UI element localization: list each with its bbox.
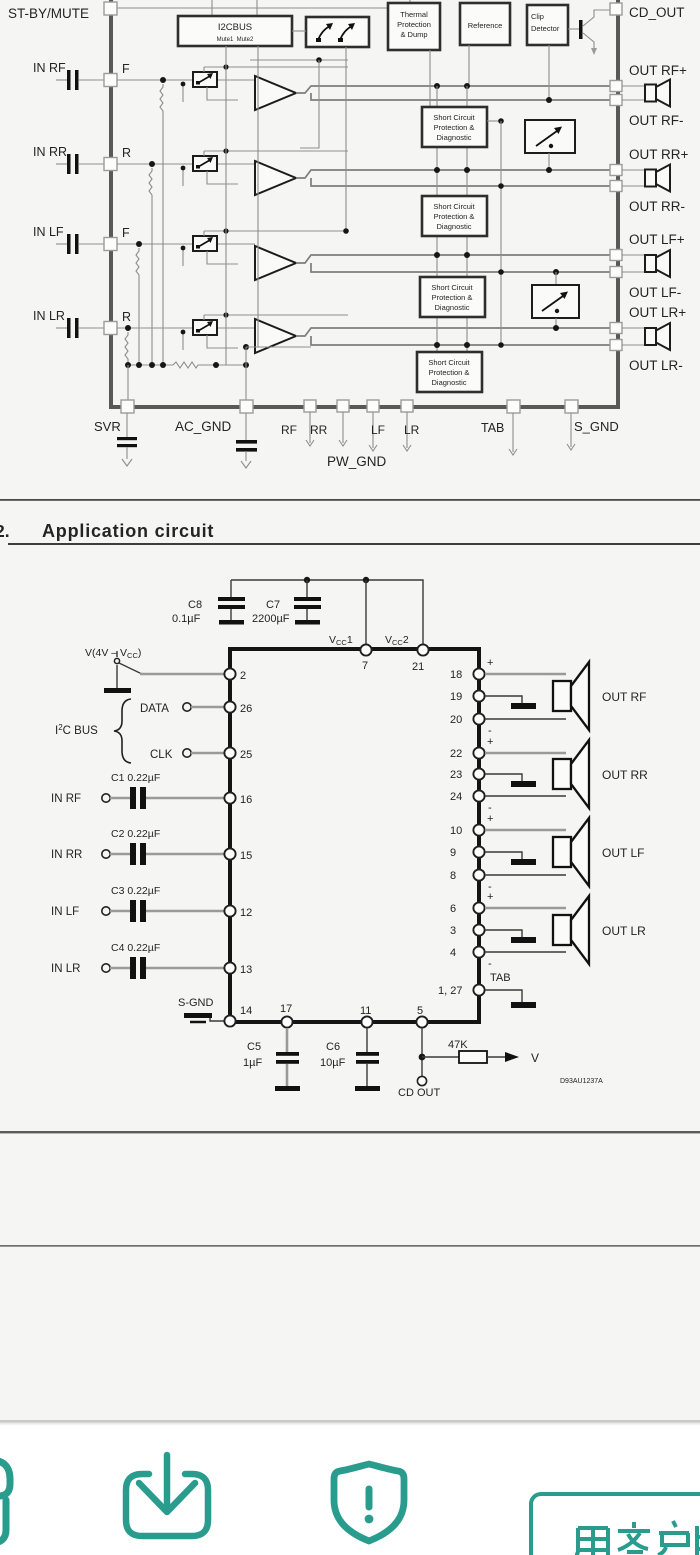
heading Application circuit [42, 521, 214, 541]
label PW_GND [327, 454, 387, 469]
wire DATA [191, 706, 224, 709]
pin 24 OUT RR- [450, 790, 485, 803]
label pin letter R [122, 146, 131, 160]
label minus OUT LF [488, 881, 492, 893]
wire AC ground bus [125, 362, 170, 368]
wire clip A to RR [546, 153, 552, 173]
svg-text:Short Circuit: Short Circuit [433, 113, 475, 122]
capacitor C1 [110, 787, 224, 809]
svg-text:IN LR: IN LR [51, 963, 80, 975]
terminal CD OUT [398, 1076, 440, 1099]
label minus OUT LR [488, 958, 492, 970]
label RF [281, 423, 297, 437]
label OUT RF+ [629, 63, 687, 78]
block clip comparator A [525, 120, 575, 153]
pin 3 pgnd [450, 924, 485, 937]
svg-text:C7: C7 [266, 599, 280, 611]
svg-text:RR: RR [310, 423, 328, 437]
wire mute bus drop LF [204, 228, 348, 236]
svg-text:DATA: DATA [140, 703, 169, 715]
label OUT RR [602, 768, 648, 782]
speaker LR [645, 323, 670, 350]
icon download [126, 1455, 208, 1536]
svg-text:Short Circuit: Short Circuit [433, 202, 475, 211]
svg-text:AC_GND: AC_GND [175, 419, 232, 434]
ground pgnd OUT RF [485, 696, 536, 709]
terminal DATA [140, 703, 191, 715]
wire OUT LR- [485, 951, 566, 953]
svg-text:24: 24 [450, 791, 462, 803]
wire input row LR [117, 327, 255, 329]
capacitor C4 [110, 957, 224, 979]
capacitor C5 [275, 1028, 300, 1091]
wire OUT RF- [485, 718, 566, 720]
block input mute switch LR [193, 320, 217, 335]
pin IN LF [104, 238, 117, 251]
pin AC_GND [240, 400, 253, 413]
svg-text:D93AU1237A: D93AU1237A [560, 1078, 603, 1085]
wire OUT LR- line [311, 336, 610, 345]
toolbar background [0, 1421, 700, 1555]
node LR taps [434, 342, 470, 348]
wire mute box feedback RR [181, 166, 238, 186]
pin 7 Vcc1 [360, 644, 371, 672]
svg-text:RF: RF [281, 423, 297, 437]
pin OUT LF+ [610, 250, 622, 261]
label C4 value [111, 942, 160, 954]
block Clip Detector [527, 5, 568, 45]
capacitor AC_GND external [236, 413, 257, 468]
svg-text:16: 16 [240, 794, 252, 806]
svg-text:C6: C6 [326, 1041, 340, 1053]
label C5 value [243, 1041, 262, 1069]
svg-text:IN RF: IN RF [51, 793, 81, 805]
label OUT RR- [629, 199, 685, 214]
label minus OUT RR [488, 802, 492, 814]
svg-text:+: + [487, 657, 493, 669]
svg-text:Protection &: Protection & [432, 293, 473, 302]
wire input row RF [117, 79, 255, 81]
pin IN LR [104, 322, 117, 335]
block short circuit protection 4 [417, 352, 482, 392]
svg-text:OUT RF-: OUT RF- [629, 113, 684, 128]
speaker LF [645, 250, 670, 277]
svg-text:Protection: Protection [397, 20, 431, 29]
IC outline U1 (block diagram) [111, 0, 618, 407]
resistor 47K [448, 1039, 487, 1063]
svg-text:7: 7 [362, 660, 368, 672]
pin 8 OUT LF- [450, 869, 485, 882]
button open in client [531, 1494, 700, 1555]
label OUT LR+ [629, 305, 686, 320]
node resistor tap RF [160, 77, 166, 83]
glyph duan partial [697, 1526, 700, 1555]
capacitor SVR external [117, 413, 137, 466]
label C2 value [111, 828, 160, 840]
svg-text:SVR: SVR [94, 419, 121, 434]
svg-text:Diagnostic: Diagnostic [431, 378, 466, 387]
block I2CBUS U2 [178, 16, 292, 46]
svg-text:R: R [122, 146, 131, 160]
brace I2C BUS [114, 699, 131, 763]
wire OUT LF- line [311, 263, 610, 272]
block short circuit protection 1 [422, 107, 487, 147]
node clip tap A [546, 97, 552, 103]
pin IN RR [104, 158, 117, 171]
svg-text:C5: C5 [247, 1041, 261, 1053]
svg-text:1, 27: 1, 27 [438, 985, 462, 997]
icon share partial left [0, 1460, 10, 1543]
label C1 value [111, 772, 160, 784]
svg-text:OUT LF: OUT LF [602, 846, 644, 860]
speaker OUT LR [553, 896, 589, 964]
capacitor C6 [355, 1028, 380, 1091]
label SVR [94, 419, 121, 434]
svg-text:OUT LF-: OUT LF- [629, 285, 681, 300]
svg-text:10: 10 [450, 825, 462, 837]
wire clip B to LR [553, 318, 559, 331]
capacitor input C-LF [56, 234, 104, 254]
node clip tap B [553, 269, 559, 285]
wire OUT LF+ [485, 829, 566, 832]
resistor shunt RF [160, 84, 163, 365]
svg-text:OUT RF: OUT RF [602, 690, 646, 704]
svg-text:Diagnostic: Diagnostic [434, 303, 469, 312]
svg-text:11: 11 [360, 1005, 371, 1017]
wire diagnostic side bus [487, 118, 504, 348]
svg-text:IN LR: IN LR [33, 309, 65, 323]
pin OUT LR- [610, 340, 622, 351]
label ST-BY/MUTE [8, 6, 89, 21]
svg-text:Protection &: Protection & [429, 368, 470, 377]
label AC_GND [175, 419, 232, 434]
rule page break 1 [0, 1131, 700, 1133]
pin 4 OUT LR- [450, 946, 485, 959]
label plus OUT LR [487, 891, 493, 903]
svg-text:LR: LR [404, 423, 420, 437]
pin TAB [507, 400, 520, 455]
wire clip detector drop [548, 45, 550, 100]
capacitor C3 [110, 900, 224, 922]
switch ST-BY [114, 651, 142, 688]
svg-text:OUT RR: OUT RR [602, 768, 648, 782]
pin 10 OUT LF+ [450, 824, 485, 837]
pin OUT RR- [610, 181, 622, 192]
pin 13 [224, 962, 252, 976]
svg-text:OUT LF+: OUT LF+ [629, 232, 685, 247]
svg-text:21: 21 [412, 661, 424, 673]
op-amp LR power amplifier [255, 319, 296, 353]
svg-text:15: 15 [240, 850, 252, 862]
wire reference drop [468, 45, 470, 86]
pin OUT LF- [610, 267, 622, 278]
ground S-GND [184, 1013, 224, 1022]
svg-text:I2C BUS: I2C BUS [55, 723, 98, 737]
wire feedback top RF [250, 57, 348, 148]
label C8 value [172, 599, 202, 625]
glyph hu [658, 1521, 689, 1555]
wire OUT RR- line [311, 178, 610, 186]
speaker RR [645, 165, 670, 192]
node resistor tap LR [125, 325, 131, 331]
wire pin5 node [419, 1028, 459, 1076]
pin 6 OUT LR+ [450, 902, 485, 915]
label I2C BUS [55, 723, 98, 737]
capacitor input C-LR [56, 318, 104, 338]
wire OUT LF- [485, 874, 566, 876]
toolbar top border [0, 1420, 700, 1425]
svg-text:13: 13 [240, 964, 252, 976]
wire I2CBUS to switch block [292, 30, 306, 32]
pin OUT RR+ [610, 165, 622, 176]
svg-text:C1 0.22µF: C1 0.22µF [111, 772, 160, 784]
op-amp RF power amplifier [255, 76, 296, 110]
terminal IN LR [51, 963, 110, 975]
svg-text:Diagnostic: Diagnostic [436, 222, 471, 231]
label pin letter F [122, 62, 130, 76]
svg-text:IN RR: IN RR [33, 145, 67, 159]
pin ST-BY/MUTE [104, 2, 117, 15]
wire I2CBUS vertical bus B [257, 46, 259, 347]
svg-text:26: 26 [240, 703, 252, 715]
svg-text:VCC1: VCC1 [329, 634, 353, 647]
glyph ke [618, 1522, 650, 1552]
svg-text:CD OUT: CD OUT [398, 1087, 440, 1099]
capacitor input C-RF [56, 70, 104, 90]
node LF+ taps [434, 252, 470, 258]
svg-text:F: F [122, 226, 130, 240]
svg-text:18: 18 [450, 669, 462, 681]
ground ST-BY switch [104, 688, 131, 693]
svg-text:+: + [487, 813, 493, 825]
svg-text:9: 9 [450, 847, 456, 859]
svg-text:0.1µF: 0.1µF [172, 613, 201, 625]
wire resistor to V [487, 1051, 539, 1065]
wire input row RR [117, 163, 255, 165]
label TAB [490, 972, 511, 984]
pin S_GND [565, 400, 578, 450]
label S_GND [574, 419, 619, 434]
wire speaker LF [622, 255, 646, 272]
label Vcc2 [385, 634, 409, 647]
pin 21 Vcc2 [412, 644, 429, 673]
label plus OUT LF [487, 813, 493, 825]
wire short-circuit chain right [466, 86, 468, 352]
svg-text:8: 8 [450, 870, 456, 882]
svg-text:& Dump: & Dump [400, 30, 427, 39]
svg-text:CD_OUT: CD_OUT [629, 5, 685, 20]
glyph yong [575, 1528, 608, 1555]
terminal IN RR [51, 849, 110, 861]
label OUT LR [602, 924, 646, 938]
svg-text:C3 0.22µF: C3 0.22µF [111, 885, 160, 897]
wire OUT RR+ [485, 752, 566, 755]
terminal IN LF [51, 906, 110, 918]
block clip comparator B [532, 285, 579, 318]
label pin letter F [122, 226, 130, 240]
label OUT LF [602, 846, 644, 860]
block mute switches [306, 17, 369, 47]
svg-text:2: 2 [240, 670, 246, 682]
svg-text:OUT LR-: OUT LR- [629, 358, 683, 373]
speaker OUT LF [553, 818, 589, 886]
pin 17 [280, 1003, 293, 1028]
svg-text:14: 14 [240, 1005, 252, 1017]
label C6 value [320, 1041, 346, 1069]
label plus OUT RR [487, 736, 493, 748]
rule figure bottom [0, 499, 700, 501]
svg-text:C4 0.22µF: C4 0.22µF [111, 942, 160, 954]
wire CLK [191, 752, 224, 755]
terminal CLK [150, 749, 191, 761]
pin LF gnd [367, 400, 379, 451]
svg-text:Diagnostic: Diagnostic [436, 133, 471, 142]
resistor bus R-ac [170, 362, 201, 368]
svg-text:C2 0.22µF: C2 0.22µF [111, 828, 160, 840]
svg-text:2.: 2. [0, 521, 10, 541]
svg-text:V(4V – VCC): V(4V – VCC) [85, 647, 141, 660]
speaker RF [645, 80, 670, 107]
wire mute bus drop RF [204, 64, 348, 72]
speaker OUT RR [553, 740, 589, 808]
label OUT LF+ [629, 232, 685, 247]
icon shield alert [334, 1464, 404, 1541]
wire OUT LF+ line [296, 255, 610, 263]
svg-text:-: - [488, 958, 492, 970]
label Vcc1 [329, 634, 353, 647]
ground TAB [485, 990, 536, 1008]
pin OUT LR+ [610, 323, 622, 334]
svg-text:R: R [122, 310, 131, 324]
svg-text:17: 17 [280, 1003, 292, 1015]
svg-text:OUT RF+: OUT RF+ [629, 63, 687, 78]
speaker OUT RF [553, 662, 589, 730]
wire OUT RF- line [311, 93, 610, 100]
svg-text:12: 12 [240, 907, 252, 919]
svg-text:C8: C8 [188, 599, 202, 611]
svg-text:+: + [487, 736, 493, 748]
block input mute switch RR [193, 156, 217, 171]
wire OUT LR+ [485, 907, 566, 910]
svg-text:S-GND: S-GND [178, 997, 214, 1009]
pin 2 [224, 668, 246, 682]
pin RF gnd [304, 400, 316, 446]
pin IN RF [104, 74, 117, 87]
terminal IN RF [51, 793, 110, 805]
label OUT RF [602, 690, 646, 704]
pin 22 OUT RR+ [450, 747, 485, 760]
svg-text:CLK: CLK [150, 749, 173, 761]
svg-text:3: 3 [450, 925, 456, 937]
svg-text:1µF: 1µF [243, 1057, 262, 1069]
pin 14 [224, 1005, 252, 1027]
wire switch to pin 2 [140, 673, 224, 676]
wire mute bus drop LR [204, 312, 348, 320]
pin 18 OUT RF+ [450, 668, 485, 681]
svg-text:2200µF: 2200µF [252, 613, 290, 625]
resistor shunt LF [136, 248, 139, 365]
svg-text:Reference: Reference [468, 21, 503, 30]
svg-text:Short Circuit: Short Circuit [428, 358, 470, 367]
label OUT RR+ [629, 147, 689, 162]
pin 26 [224, 701, 252, 715]
node resistor tap LF [136, 241, 142, 247]
label plus OUT RF [487, 657, 493, 669]
label OUT LR- [629, 358, 683, 373]
svg-text:S_GND: S_GND [574, 419, 619, 434]
wire mute box feedback LF [181, 246, 238, 266]
wire mute bus drop RR [204, 148, 348, 156]
op-amp LF power amplifier [255, 246, 296, 280]
block input mute switch RF [193, 72, 217, 87]
svg-text:IN RF: IN RF [33, 61, 66, 75]
label C3 value [111, 885, 160, 897]
wire OUT RF+ line [296, 86, 610, 93]
block short circuit protection 2 [422, 196, 487, 236]
label C7 value [252, 599, 290, 625]
wire thermal drop [429, 50, 431, 107]
pin 11 [360, 1005, 373, 1028]
svg-text:OUT LR+: OUT LR+ [629, 305, 686, 320]
svg-text:TAB: TAB [490, 972, 511, 984]
label IN LR [33, 309, 65, 323]
svg-text:OUT RR-: OUT RR- [629, 199, 685, 214]
label CD_OUT [629, 5, 685, 20]
svg-text:OUT RR+: OUT RR+ [629, 147, 689, 162]
transistor Q1 clip output [568, 10, 610, 55]
svg-text:4: 4 [450, 947, 456, 959]
svg-text:IN LF: IN LF [33, 225, 64, 239]
pin LR gnd [401, 400, 413, 451]
wire speaker LR [622, 328, 646, 345]
node RF+ taps [434, 83, 470, 89]
label LF [371, 423, 385, 437]
svg-text:OUT LR: OUT LR [602, 924, 646, 938]
pin 1,27 TAB [438, 984, 485, 997]
op-amp RR power amplifier [255, 161, 296, 195]
svg-text:ST-BY/MUTE: ST-BY/MUTE [8, 6, 89, 21]
svg-text:I2CBUS: I2CBUS [218, 22, 252, 33]
wire mute box feedback LR [181, 330, 238, 350]
rule page break 2 [0, 1245, 700, 1247]
node resistor tap RR [149, 161, 155, 167]
ground pgnd OUT RR [485, 774, 536, 787]
wire input row LF [117, 243, 255, 245]
wire ST-BY/MUTE net [117, 0, 410, 17]
svg-text:F: F [122, 62, 130, 76]
wire OUT LR+ line [296, 328, 610, 336]
svg-text:20: 20 [450, 714, 462, 726]
wire supply rail [231, 577, 423, 644]
heading section number 2 [0, 521, 10, 541]
svg-text:19: 19 [450, 691, 462, 703]
wire speaker RF [622, 86, 646, 100]
svg-text:Thermal: Thermal [400, 10, 428, 19]
block input mute switch LF [193, 236, 217, 251]
svg-text:Short Circuit: Short Circuit [431, 283, 473, 292]
label TAB [481, 421, 504, 435]
svg-text:PW_GND: PW_GND [327, 454, 387, 469]
pin 12 [224, 905, 252, 919]
pin 25 [224, 747, 252, 761]
svg-text:Protection &: Protection & [434, 212, 475, 221]
svg-text:LF: LF [371, 423, 385, 437]
label IN LF [33, 225, 64, 239]
ground pgnd OUT LR [485, 930, 536, 943]
svg-text:Protection &: Protection & [434, 123, 475, 132]
label V(4V-Vcc) [85, 647, 141, 660]
pin CD_OUT [610, 3, 622, 15]
